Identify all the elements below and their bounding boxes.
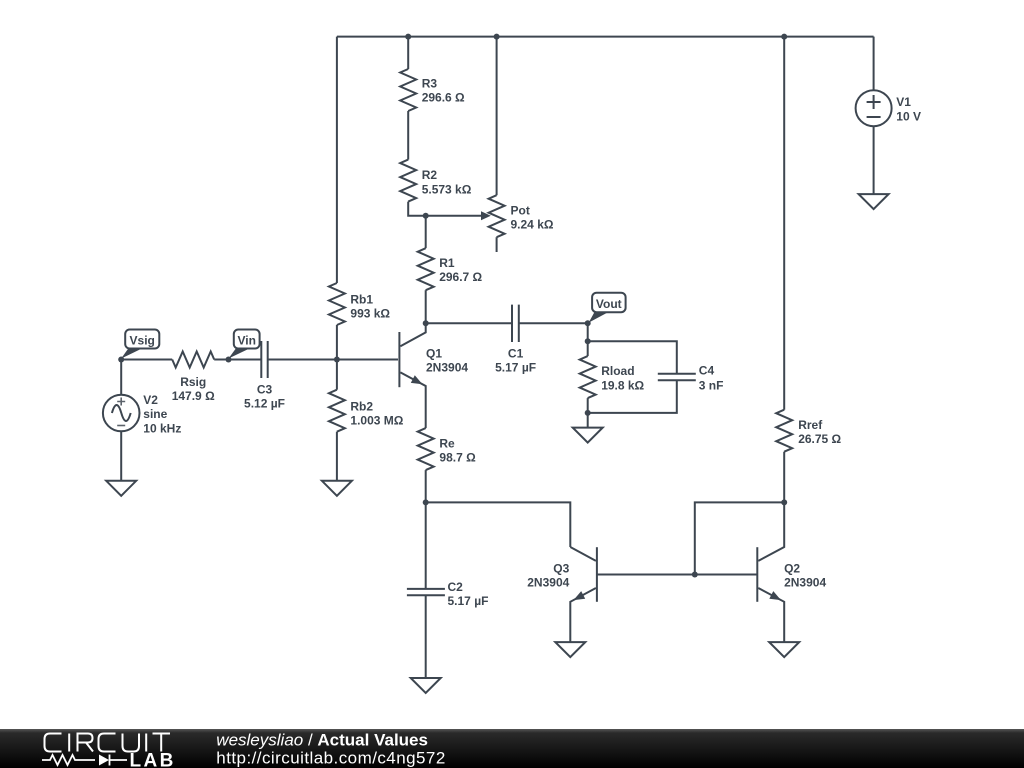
node Vsig flag — [118, 357, 124, 363]
ground — [769, 642, 799, 657]
wire left riser to Rb1 — [336, 37, 338, 283]
wire V1 to ground — [873, 126, 875, 194]
wiper arrowhead — [481, 211, 491, 220]
svg-text:Q3: Q3 — [553, 562, 569, 576]
resistor Rsig — [172, 352, 214, 368]
wire V2 top — [120, 360, 122, 395]
svg-text:10 V: 10 V — [896, 110, 921, 124]
resistor R2 — [400, 160, 416, 202]
svg-text:26.75 Ω: 26.75 Ω — [798, 432, 841, 446]
ground — [555, 642, 585, 657]
svg-text:C3: C3 — [257, 383, 273, 397]
svg-text:2N3904: 2N3904 — [784, 576, 826, 590]
wire base rail — [597, 574, 757, 576]
junction node R2 / R1 / pot wiper — [423, 213, 429, 219]
wire Vsig to Rsig — [121, 359, 172, 361]
svg-text:Rload: Rload — [601, 364, 634, 378]
wire C2 top — [425, 502, 427, 589]
wire R3 branch top — [407, 37, 409, 69]
voltage source V2 — [103, 395, 140, 432]
potentiometer Pot — [489, 195, 505, 237]
resistor Re — [418, 428, 434, 470]
wire Rb1 bottom — [336, 325, 338, 360]
resistor Rload — [580, 356, 596, 398]
transistor Q3 — [596, 547, 598, 602]
junction node Re / C2 / mirror — [423, 499, 429, 505]
wire C4 bottom — [588, 380, 677, 413]
capacitor C2 — [407, 589, 445, 595]
svg-text:wesleysliao / Actual Values: wesleysliao / Actual Values — [216, 730, 428, 749]
svg-text:3 nF: 3 nF — [699, 379, 724, 393]
ground — [322, 481, 352, 496]
junction node top rail / Rref — [781, 34, 787, 40]
wire R1 bottom — [425, 290, 427, 323]
capacitor C1 — [512, 305, 519, 342]
svg-text:5.17 µF: 5.17 µF — [448, 594, 489, 608]
wire to ground — [587, 413, 589, 428]
wire Vout down — [587, 323, 589, 341]
svg-text:Vout: Vout — [596, 297, 622, 311]
svg-text:5.17 µF: 5.17 µF — [495, 361, 536, 375]
junction node top rail / R3 — [405, 34, 411, 40]
svg-text:R1: R1 — [439, 256, 455, 270]
wire R2 bottom to pot wiper — [408, 202, 481, 216]
resistor R3 — [400, 69, 416, 111]
svg-text:9.24 kΩ: 9.24 kΩ — [511, 218, 554, 232]
wire Re bottom — [425, 470, 427, 502]
svg-text:296.7 Ω: 296.7 Ω — [439, 270, 482, 284]
resistor Rb1 — [329, 283, 345, 325]
wire Rb2 to ground — [336, 432, 338, 481]
resistor R1 — [418, 248, 434, 290]
wire V2 to ground — [120, 431, 122, 481]
svg-text:Q1: Q1 — [426, 347, 442, 361]
svg-text:2N3904: 2N3904 — [426, 360, 468, 374]
wire Rsig to C3 — [214, 359, 261, 361]
junction node top rail / Pot — [494, 34, 500, 40]
wire to C4 top — [588, 341, 677, 373]
logo resistor-diode symbol — [42, 755, 127, 766]
svg-text:C1: C1 — [508, 347, 524, 361]
junction node base rail / Q2 collector tie — [692, 572, 698, 578]
resistor Rref — [776, 410, 792, 452]
svg-text:R2: R2 — [422, 168, 438, 182]
svg-text:147.9 Ω: 147.9 Ω — [172, 389, 215, 403]
svg-text:Rsig: Rsig — [180, 375, 206, 389]
transistor Q1 — [398, 332, 400, 387]
svg-text:LAB: LAB — [130, 751, 176, 768]
junction node Rload / C4 — [585, 338, 591, 344]
wire Q1 collector to C1 — [426, 322, 512, 324]
svg-text:296.6 Ω: 296.6 Ω — [422, 91, 465, 105]
logo CIRCUIT — [45, 734, 171, 752]
wire Rref bottom — [783, 452, 785, 503]
svg-text:Re: Re — [439, 436, 455, 450]
wire R3-R2 — [407, 111, 409, 160]
svg-text:Rb2: Rb2 — [350, 400, 373, 414]
svg-text:993 kΩ: 993 kΩ — [350, 306, 390, 320]
node Vin flag — [226, 357, 232, 363]
resistor Rb2 — [329, 390, 345, 432]
wire Rb2 top — [336, 360, 338, 390]
ground — [859, 194, 889, 209]
svg-text:Q2: Q2 — [784, 562, 800, 576]
junction node Rb1 / Rb2 / base — [334, 357, 340, 363]
svg-text:Rb1: Rb1 — [350, 292, 373, 306]
junction node R1 / Q1 collector / C1 — [423, 320, 429, 326]
wire V1 drop — [873, 37, 875, 91]
svg-text:R3: R3 — [422, 76, 438, 90]
wire C3 to Q1 base — [268, 359, 398, 361]
svg-text:C2: C2 — [448, 580, 464, 594]
capacitor C4 — [658, 374, 696, 381]
wire base to Q2 collector — [695, 502, 784, 574]
svg-text:98.7 Ω: 98.7 Ω — [439, 450, 476, 464]
svg-text:Vin: Vin — [237, 333, 255, 347]
wire pot branch top — [496, 37, 498, 196]
ground — [411, 678, 441, 693]
svg-text:Vsig: Vsig — [130, 333, 155, 347]
wire C1 to Vout — [519, 322, 588, 324]
svg-text:5.573 kΩ: 5.573 kΩ — [422, 182, 472, 196]
svg-text:1.003 MΩ: 1.003 MΩ — [350, 414, 403, 428]
svg-text:sine: sine — [143, 407, 167, 421]
svg-text:10 kHz: 10 kHz — [143, 421, 181, 435]
junction node Rref / Q2 collector — [781, 499, 787, 505]
svg-text:C4: C4 — [699, 364, 715, 378]
transistor Q2 — [756, 547, 758, 602]
wire top rail — [337, 36, 874, 38]
wire pot bottom stub — [496, 237, 498, 252]
wire Rref branch — [783, 37, 785, 410]
svg-text:Pot: Pot — [511, 204, 530, 218]
wire emitter rail to mirror — [426, 502, 571, 547]
node Vout flag — [585, 320, 591, 326]
junction node Rload / C4 bottom — [585, 410, 591, 416]
svg-text:5.12 µF: 5.12 µF — [244, 397, 285, 411]
svg-text:V2: V2 — [143, 393, 158, 407]
wire Rload top — [587, 341, 589, 356]
svg-text:2N3904: 2N3904 — [527, 576, 569, 590]
svg-text:http://circuitlab.com/c4ng572: http://circuitlab.com/c4ng572 — [216, 749, 445, 768]
wire Rload bottom — [587, 398, 589, 413]
ground — [573, 428, 603, 443]
svg-text:V1: V1 — [896, 95, 911, 109]
capacitor C3 — [261, 341, 267, 378]
footer bar — [0, 729, 1024, 768]
svg-text:19.8 kΩ: 19.8 kΩ — [601, 378, 644, 392]
wire C2 bottom — [425, 595, 427, 678]
svg-text:Rref: Rref — [798, 418, 823, 432]
wire R1 top — [425, 216, 427, 249]
voltage source V1 — [856, 90, 892, 126]
ground — [106, 481, 136, 496]
